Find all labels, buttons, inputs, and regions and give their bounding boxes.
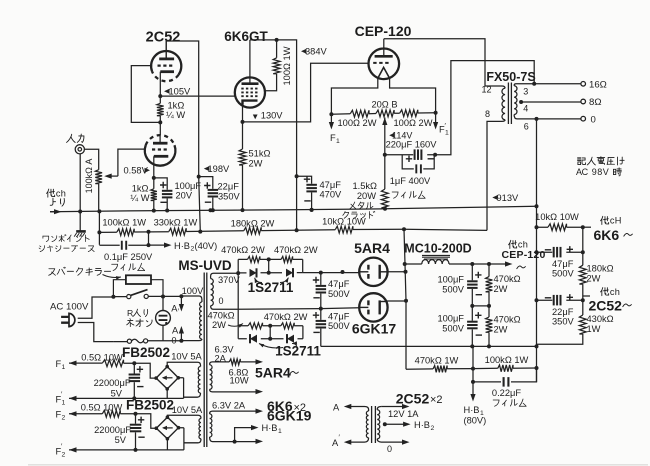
volume pot 100kΩA VR1: [95, 170, 102, 184]
svg-text:1: 1: [445, 130, 449, 137]
capacitor 22000μF 5V (1): [132, 361, 136, 365]
svg-text:1.5kΩ: 1.5kΩ: [352, 181, 377, 191]
svg-text:1: 1: [278, 428, 282, 435]
resistor 470kΩ 2W (c): [238, 326, 303, 339]
plug wires: [78, 297, 114, 318]
wire F2 row: [69, 414, 156, 428]
svg-text:47μF: 47μF: [328, 312, 350, 322]
svg-text:6GK19: 6GK19: [267, 408, 312, 424]
wire 2C52 plate rail to 198V node: [166, 41, 199, 177]
svg-text:10W: 10W: [230, 376, 249, 386]
svg-text:20Ω B: 20Ω B: [371, 100, 397, 110]
plate rail 384V wire: [250, 40, 297, 230]
svg-text:MC10-200D: MC10-200D: [404, 242, 471, 256]
svg-text:(40V): (40V): [195, 241, 218, 251]
svg-text:500V: 500V: [328, 321, 351, 331]
node to 47μF column: [319, 271, 323, 275]
node to other ch 6K6: [581, 225, 585, 229]
diode row upper 1S2711 x2: [238, 259, 303, 273]
svg-text:FB2502: FB2502: [126, 398, 174, 413]
switch line: [113, 295, 181, 297]
svg-text:0.22μF: 0.22μF: [492, 388, 521, 398]
resistor 470kΩ 2W (2nd): [488, 306, 490, 347]
V3 filament leads: [331, 78, 377, 114]
node 220μF right: [433, 153, 437, 157]
svg-text:0.5Ω 10W: 0.5Ω 10W: [81, 403, 123, 413]
V1b cathode: [154, 155, 169, 158]
terminal 8Ω: [581, 99, 586, 104]
svg-text:100Ω 1W: 100Ω 1W: [282, 46, 292, 85]
capacitor 47μF 500V (doubler 1): [320, 273, 322, 285]
svg-text:H·B: H·B: [464, 405, 480, 415]
svg-text:470kΩ: 470kΩ: [207, 311, 234, 321]
svg-text:2W: 2W: [494, 325, 508, 335]
svg-text:100kΩ A: 100kΩ A: [84, 159, 94, 194]
capacitor 22μF 350V: [199, 177, 213, 189]
resistor 0.5Ω 10W (1): [102, 360, 123, 367]
capacitor 22000μF 5V (2): [134, 412, 138, 416]
resistor 470kΩ 1W: [433, 366, 447, 373]
svg-text:0.5Ω 10W: 0.5Ω 10W: [81, 353, 123, 363]
svg-text:A: A: [172, 326, 179, 336]
svg-text:470kΩ 2W: 470kΩ 2W: [264, 312, 308, 322]
svg-text:22000μF: 22000μF: [94, 425, 131, 435]
capacitor 47μF 500V (doubler 2): [320, 309, 322, 320]
resistor 430kΩ 1W: [537, 300, 583, 344]
svg-text:1S2711: 1S2711: [275, 343, 321, 358]
capacitor 1μF 400V film parallel: [402, 155, 434, 169]
svg-text:MS-UVD: MS-UVD: [178, 258, 231, 273]
capacitor 100μF 500V (2nd): [471, 306, 473, 321]
svg-text:H·B: H·B: [414, 420, 430, 430]
svg-text:1kΩ: 1kΩ: [168, 101, 185, 111]
note 記入電圧は AC98V時: [578, 158, 586, 165]
svg-text:430kΩ: 430kΩ: [587, 314, 614, 324]
resistor 1kΩ 1/4W cathode: [151, 189, 157, 201]
node B+ after 10k: [402, 227, 406, 231]
wire CEP-120 plate to pin 12: [384, 39, 502, 86]
wire F2' row: [69, 428, 198, 450]
wire F1 row: [69, 363, 156, 378]
resistor 10kΩ 10W (other ch feed): [537, 226, 583, 228]
svg-text:8Ω: 8Ω: [589, 97, 602, 108]
svg-text:100Ω 2W: 100Ω 2W: [338, 118, 377, 128]
svg-text:500V: 500V: [552, 269, 575, 279]
fuse: [127, 339, 131, 343]
resistor 470kΩ 2W (a): [238, 258, 303, 260]
svg-text:8: 8: [597, 167, 602, 177]
V1a plate: [159, 58, 174, 61]
triode V1b (2C52 lower) envelope: [145, 145, 176, 166]
winding 6.3V 2A (6K6 etc): [210, 411, 213, 414]
svg-text:0: 0: [219, 296, 224, 306]
svg-text:CEP-120: CEP-120: [355, 23, 412, 39]
svg-text:FX50-7S: FX50-7S: [486, 70, 535, 84]
svg-text:1: 1: [62, 400, 66, 407]
pot 20Ω B hum balance: [376, 110, 394, 117]
rectifier V5 6GK17: [359, 293, 387, 321]
resistor 100kΩ 1W: [117, 229, 134, 236]
V2 cathode: [243, 101, 258, 105]
svg-text:H·B: H·B: [174, 241, 190, 251]
svg-text:47μF: 47μF: [320, 180, 342, 190]
svg-text:100kΩ 1W: 100kΩ 1W: [485, 355, 529, 365]
svg-text:FB2502: FB2502: [122, 345, 170, 360]
svg-text:100μF: 100μF: [437, 275, 464, 285]
neon lamp with R: [161, 295, 165, 299]
svg-text:A: A: [333, 403, 340, 413]
V5 out wire: [387, 300, 406, 302]
svg-text:105V: 105V: [169, 87, 192, 97]
svg-text:6K6: 6K6: [594, 227, 620, 243]
svg-text:2W: 2W: [212, 320, 226, 330]
svg-text:47μF: 47μF: [552, 259, 574, 269]
svg-text:h: h: [615, 287, 620, 297]
svg-text:2: 2: [431, 425, 435, 432]
resistor 0.5Ω 10W (2): [102, 410, 120, 417]
NFB wire 16Ω tap to cathode network: [435, 61, 534, 155]
winding 10V 5A (2): [167, 415, 201, 418]
svg-text:×2: ×2: [430, 394, 443, 406]
arrow H·B2 (40V): [149, 244, 167, 246]
resistor 6.8Ω 10W: [213, 361, 257, 363]
winding 6.3V 2A (5AR4): [210, 362, 213, 365]
svg-text:2W: 2W: [494, 284, 508, 294]
wiper arrow 114V: [382, 118, 387, 126]
svg-text:10kΩ 10W: 10kΩ 10W: [535, 212, 579, 222]
transformer T-OPT primary winding (12-8): [502, 86, 505, 88]
node F1 / arrow: [329, 112, 333, 116]
svg-text:16Ω: 16Ω: [589, 80, 607, 91]
svg-text:100μF: 100μF: [437, 314, 464, 324]
svg-text:C: C: [582, 167, 589, 177]
svg-text:h: h: [61, 188, 66, 198]
bias network left vertical: [237, 259, 239, 338]
V3 filament: [378, 67, 390, 78]
scan edge artifact: [28, 464, 648, 465]
node F1' / arrow: [434, 111, 438, 115]
svg-text:470kΩ: 470kΩ: [494, 315, 521, 325]
svg-text:CEP-120: CEP-120: [502, 249, 546, 261]
svg-text:100kΩ 1W: 100kΩ 1W: [102, 218, 146, 228]
svg-text:2: 2: [62, 452, 66, 459]
resistor 330kΩ 1W: [169, 228, 186, 235]
capacitor 47μF 470V: [306, 184, 317, 186]
terminal 16Ω: [581, 82, 586, 87]
wire to lower triode plate: [159, 122, 161, 135]
svg-text:1μF 400V: 1μF 400V: [390, 176, 431, 186]
svg-text:470V: 470V: [320, 189, 343, 199]
arrow H·B1 (80V): [472, 382, 474, 396]
resistor 100kΩ 1W: [498, 365, 513, 372]
svg-text:0: 0: [591, 114, 596, 125]
svg-text:2C52: 2C52: [589, 298, 623, 314]
node 198V: [197, 175, 201, 179]
svg-text:350V: 350V: [552, 317, 575, 327]
svg-text:470kΩ 1W: 470kΩ 1W: [415, 356, 459, 366]
wire node to choke: [404, 229, 406, 369]
svg-text:1: 1: [336, 138, 340, 145]
node to other ch 2C52: [581, 298, 585, 302]
svg-text:10V 5A: 10V 5A: [172, 405, 203, 415]
V4 plate out: [388, 271, 406, 273]
svg-text:6.3V 2A: 6.3V 2A: [212, 401, 246, 411]
capacitor 220μF 160V: [385, 154, 435, 156]
svg-text:100μF: 100μF: [175, 181, 202, 191]
node mid filter: [472, 305, 489, 307]
wire cathode to CEP-120 grid: [243, 63, 369, 122]
capacitor 0.1μF 250V film: [122, 241, 126, 250]
svg-text:6K6GT: 6K6GT: [224, 29, 268, 44]
divider row wire: [99, 229, 487, 232]
svg-text:500V: 500V: [328, 289, 351, 299]
pentode V2 6K6GT envelope: [235, 77, 265, 107]
label spark killer: [49, 269, 56, 276]
svg-text:20V: 20V: [176, 191, 193, 201]
V3 plate: [375, 55, 393, 58]
capacitor 100μF 20V: [154, 178, 167, 190]
power switch: [127, 295, 131, 299]
resistor 1kΩ 1/4W (SRPP): [157, 103, 164, 115]
spark killer box: [113, 280, 163, 297]
primary 100V winding: [181, 296, 202, 302]
V1b grid: [152, 148, 169, 150]
svg-text:8: 8: [485, 109, 490, 119]
triode V1a (2C52 upper) envelope: [151, 51, 181, 75]
svg-text:3: 3: [523, 87, 528, 97]
svg-text:330kΩ 1W: 330kΩ 1W: [154, 217, 198, 227]
V2 grids (dashed rows): [241, 88, 258, 90]
svg-text:¼ W: ¼ W: [130, 193, 149, 203]
vertical V2 from 0-terminal down: [536, 119, 538, 382]
V1b plate: [153, 142, 168, 145]
tap H·B1: [233, 440, 237, 444]
svg-text:913V: 913V: [497, 193, 520, 203]
bottom rail row A: [321, 345, 537, 347]
node cathode V1b: [152, 176, 156, 180]
node choke out: [470, 262, 474, 266]
svg-text:22μF: 22μF: [552, 307, 574, 317]
svg-text:AC 100V: AC 100V: [50, 302, 89, 313]
svg-text:470kΩ 2W: 470kΩ 2W: [221, 245, 265, 255]
resistor 51kΩ 2W: [239, 149, 246, 165]
svg-text:6GK17: 6GK17: [352, 321, 397, 337]
ground bus: [50, 206, 537, 211]
svg-text:H·B: H·B: [262, 423, 278, 433]
resistor 470kΩ 2W (1st): [488, 264, 490, 306]
label 入力 (input): [67, 134, 76, 142]
svg-text:180kΩ 2W: 180kΩ 2W: [231, 219, 275, 229]
svg-text:0.1μF 250V: 0.1μF 250V: [104, 252, 153, 262]
wire bus to divider row: [98, 211, 100, 244]
input jack J1: [75, 145, 84, 154]
V1a grid: [158, 64, 175, 66]
node primary bottom / A arrow: [179, 339, 183, 343]
pot wiper arrow: [107, 175, 118, 177]
heater transformer core: [372, 406, 376, 443]
svg-text:V: V: [603, 167, 609, 177]
transformer core: [508, 83, 511, 125]
svg-text:2C52: 2C52: [146, 30, 181, 46]
svg-text:2W: 2W: [249, 159, 263, 169]
one-point chassis earth: [79, 212, 81, 231]
node SRPP mid: [158, 120, 162, 124]
svg-text:384V: 384V: [305, 46, 328, 56]
cathode row wire: [331, 113, 435, 114]
V1a cathode: [160, 70, 174, 73]
resistor 10kΩ 10W: [335, 226, 353, 233]
svg-text:5AR4: 5AR4: [354, 240, 390, 256]
svg-text:12V 1A: 12V 1A: [388, 409, 419, 419]
svg-text:9: 9: [592, 167, 597, 177]
svg-text:2W: 2W: [587, 274, 601, 284]
arrow to other ch CEP-120: [505, 261, 513, 266]
resistor 1.5kΩ 20W metal clad: [381, 189, 388, 208]
node doubler mid: [319, 307, 323, 311]
svg-text:(80V): (80V): [464, 416, 487, 426]
terminal 0: [581, 116, 586, 121]
svg-text:5V: 5V: [111, 388, 123, 398]
svg-text:180kΩ: 180kΩ: [587, 264, 614, 274]
node 220μF row: [383, 153, 387, 157]
wire 913V (pin 8 B+): [492, 195, 498, 200]
MS-UVD core: [204, 273, 207, 448]
svg-text:100V: 100V: [182, 286, 205, 296]
capacitor 47μF 500V (coupling): [537, 251, 583, 253]
svg-text:4: 4: [523, 104, 528, 114]
heater transformer secondary 12V 1A: [377, 407, 381, 410]
svg-text:22μF: 22μF: [218, 182, 240, 192]
svg-text:20W: 20W: [357, 191, 376, 201]
winding lower lead arrow: [256, 389, 264, 394]
link row A to row B: [472, 346, 474, 368]
diode row lower 1S2711 x2: [238, 338, 303, 340]
node 384V rail to 47μF: [295, 174, 299, 178]
svg-text:¼ W: ¼ W: [166, 110, 185, 120]
svg-text:51kΩ: 51kΩ: [249, 149, 271, 159]
tube V3 CEP-120 envelope: [369, 49, 400, 80]
svg-text:470kΩ 2W: 470kΩ 2W: [274, 245, 318, 255]
svg-text:H: H: [615, 216, 622, 226]
bus left arrow (from other ch): [50, 211, 56, 213]
winding 10V 5A (1): [167, 362, 200, 366]
svg-text:22000μF: 22000μF: [94, 378, 131, 388]
resistor 100Ω 2W left: [350, 110, 369, 117]
tap 8Ω: [519, 100, 523, 104]
svg-text:47μF: 47μF: [328, 279, 350, 289]
svg-text:500V: 500V: [442, 324, 465, 334]
svg-text:130V: 130V: [261, 111, 284, 121]
svg-text:0: 0: [387, 444, 392, 454]
svg-text:10V 5A: 10V 5A: [171, 352, 202, 362]
label 他ch より (from other ch): [47, 189, 55, 197]
node 0 terminal to ground: [535, 117, 539, 121]
svg-text:370V: 370V: [218, 275, 241, 285]
svg-text:100Ω 2W: 100Ω 2W: [394, 118, 433, 128]
V2 plate: [242, 82, 259, 85]
svg-text:1W: 1W: [587, 324, 601, 334]
node 40V: [147, 230, 151, 234]
svg-text:1: 1: [62, 364, 66, 371]
svg-text:6: 6: [524, 122, 529, 132]
rectifier V4 5AR4: [359, 258, 387, 286]
transformer secondary winding (3-4-6): [514, 84, 534, 86]
wire pin3 to 16Ω terminal: [534, 83, 581, 85]
capacitor 22μF 350V (coupling): [537, 299, 583, 301]
secondary 370V HT winding: [211, 273, 238, 278]
svg-text:350V: 350V: [218, 192, 241, 202]
node 130V cathode: [241, 120, 245, 124]
svg-text:5AR4: 5AR4: [255, 365, 291, 381]
pot bottom to bus: [98, 184, 100, 212]
capacitor 0.22μF film: [472, 369, 474, 382]
svg-text:2: 2: [62, 415, 66, 422]
heater transformer primary: [349, 407, 369, 412]
resistor 100Ω 2W right: [400, 110, 418, 117]
wire 198V node to divider row: [199, 177, 201, 232]
resistor 100Ω 1W screen: [273, 58, 280, 74]
svg-text:R: R: [127, 308, 133, 318]
svg-text:470kΩ: 470kΩ: [494, 274, 521, 284]
wire 370V bottom row to 6GK17: [238, 308, 359, 310]
wire jack down to ground bus: [79, 154, 81, 212]
svg-text:500V: 500V: [442, 285, 465, 295]
resistor 180kΩ 2W: [582, 227, 584, 300]
resistor 180kΩ 2W: [244, 227, 261, 234]
center tap H·B2: [383, 422, 387, 426]
node primary top / A' arrow: [179, 294, 183, 298]
svg-text:5V: 5V: [115, 435, 127, 445]
fuse line: [113, 340, 181, 343]
V3 grid dashes: [373, 62, 390, 64]
capacitor 100μF 500V (1st): [471, 264, 473, 280]
node 105V: [158, 94, 162, 98]
wire jack to pot top: [84, 149, 98, 169]
label 384V: [301, 49, 307, 54]
svg-text:198V: 198V: [208, 164, 231, 174]
AC plug: [69, 313, 75, 326]
svg-text:12: 12: [481, 85, 491, 95]
svg-text:2C52: 2C52: [396, 391, 430, 407]
row B wire: [406, 368, 537, 369]
wire F1' row: [69, 378, 198, 399]
svg-text:220μF 160V: 220μF 160V: [386, 140, 438, 150]
